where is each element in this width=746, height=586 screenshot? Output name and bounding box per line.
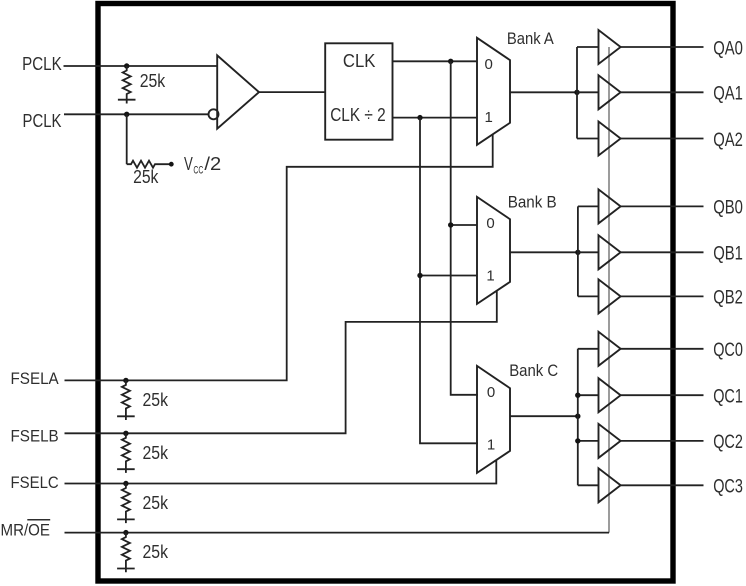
wire PCLK(inv) input <box>64 113 209 115</box>
wire FSELA net to Bank A mux select <box>65 134 493 380</box>
buffer QC1 <box>599 378 621 412</box>
wire PCLK input <box>64 65 218 67</box>
junction on PCLK(inv) wire <box>124 112 129 117</box>
svg-text:QB1: QB1 <box>713 244 743 265</box>
wire stub to QC1 buffer <box>578 394 599 396</box>
svg-text:QA1: QA1 <box>713 84 743 105</box>
svg-text:PCLK: PCLK <box>23 111 62 131</box>
wire QC1 output <box>621 394 704 396</box>
resistor R5 25k pulldown on FSELC <box>122 484 130 524</box>
junction CLK÷2 rail at Bank B <box>417 273 422 278</box>
junction FSELB at R4 <box>123 431 128 436</box>
svg-text:QA2: QA2 <box>713 130 743 151</box>
buffer QA2 <box>599 122 621 156</box>
svg-text:QC0: QC0 <box>713 340 743 361</box>
svg-text:1: 1 <box>485 109 493 126</box>
svg-text:25k: 25k <box>143 493 169 513</box>
wire stub to QC3 buffer <box>578 484 599 486</box>
buffer QB1 <box>599 235 621 269</box>
wire stub to QB0 buffer <box>578 205 599 207</box>
wire QB input rail <box>577 206 579 296</box>
svg-text:QC3: QC3 <box>713 477 743 498</box>
svg-text:0: 0 <box>485 56 493 73</box>
svg-text:Bank C: Bank C <box>509 361 558 380</box>
inversion bubble on U1 <box>209 109 219 119</box>
wire QC input rail <box>577 349 579 486</box>
svg-text:25k: 25k <box>140 71 166 91</box>
wire Bank C mux output <box>510 415 578 417</box>
junction Bank C output at QC rail <box>575 414 580 419</box>
buffer QC0 <box>599 332 621 366</box>
svg-text:QC2: QC2 <box>713 432 743 453</box>
resistor R4 25k pulldown on FSELB <box>122 433 130 473</box>
svg-text:CLK: CLK <box>343 51 376 71</box>
wire CLK net to Bank A mux input 0 <box>393 60 478 62</box>
wire from PCLK(inv) down to R2 <box>126 114 128 164</box>
wire stub to QC0 buffer <box>578 348 599 350</box>
svg-text:QC1: QC1 <box>713 387 743 408</box>
wire CLK÷2 rail stub to Bank B input 1 <box>420 275 477 277</box>
wire CLK÷2 net to Bank A mux input 1 <box>393 117 478 119</box>
wire CLK vertical rail to banks B and C <box>451 61 478 395</box>
junction QC rail at QC1 <box>575 393 580 398</box>
wire Bank B mux output <box>510 251 578 253</box>
wire QC3 output <box>621 484 704 486</box>
mux U3 Bank A <box>477 38 510 145</box>
ground bar of R6 <box>117 568 135 570</box>
op-amp U1 differential input buffer <box>217 55 259 128</box>
divider block U2 CLK / CLK÷2 <box>325 43 392 139</box>
svg-text:PCLK: PCLK <box>22 54 62 74</box>
svg-text:25k: 25k <box>143 542 169 562</box>
junction MR/OE at R6 <box>123 530 128 535</box>
buffer QB2 <box>599 279 621 313</box>
wire QA input rail <box>576 47 578 139</box>
wire stub to QA2 buffer <box>577 138 599 140</box>
junction CLK÷2 net <box>417 115 422 120</box>
svg-text:25k: 25k <box>133 167 159 187</box>
wire CLK rail stub to Bank B input 0 <box>451 224 477 226</box>
wire QC2 output <box>621 440 704 442</box>
border frame of device <box>98 4 673 582</box>
svg-text:Bank A: Bank A <box>507 29 554 48</box>
svg-text:V: V <box>184 154 193 174</box>
junction FSELC at R5 <box>123 481 128 486</box>
resistor R6 25k pulldown on MR/OE <box>122 533 130 573</box>
junction QC rail at QC2 <box>575 438 580 443</box>
junction FSELA at R3 <box>123 378 128 383</box>
node Vcc/2 terminal dot <box>169 162 174 167</box>
svg-text:CC: CC <box>193 165 203 177</box>
svg-text:QB0: QB0 <box>713 198 743 219</box>
svg-text:0: 0 <box>487 384 495 401</box>
junction CLK rail at Bank B <box>448 222 453 227</box>
wire FSELC net to Bank C mux select <box>65 460 497 484</box>
wire Bank A mux output <box>510 91 577 93</box>
ground bar of R5 <box>117 518 135 520</box>
resistor R2 25k horizontal to Vcc/2 <box>127 161 172 168</box>
svg-text:FSELA: FSELA <box>11 369 60 388</box>
ground bar of R3 <box>117 415 135 417</box>
wire MR/OE net to output enable rail <box>65 532 610 534</box>
wire QA2 output <box>621 138 704 140</box>
svg-text:QB2: QB2 <box>713 288 743 309</box>
wire QC0 output <box>621 348 704 350</box>
buffer QA1 <box>599 75 621 109</box>
svg-text:1: 1 <box>487 437 495 454</box>
ground bar of R1 <box>118 99 136 101</box>
junction Bank B output at QB rail <box>575 250 580 255</box>
wire stub to QA1 buffer <box>577 91 599 93</box>
buffer QC3 <box>599 468 621 502</box>
resistor R3 25k pulldown on FSELA <box>122 380 130 420</box>
buffer QB0 <box>599 189 621 223</box>
svg-text:MR/OE: MR/OE <box>1 521 51 540</box>
wire QA1 output <box>621 91 704 93</box>
wire QB0 output <box>621 205 704 207</box>
svg-text:0: 0 <box>486 215 494 232</box>
junction on PCLK wire <box>124 63 129 68</box>
wire FSELB net to Bank B mux select <box>65 291 497 434</box>
buffer QC2 <box>599 424 621 458</box>
junction CLK net <box>448 59 453 64</box>
wire QB1 output <box>621 251 704 253</box>
resistor R1 25k pulldown on PCLK <box>123 66 131 104</box>
overline over OE <box>27 519 50 521</box>
wire U1 output to CLK block <box>259 91 325 93</box>
svg-text:FSELC: FSELC <box>11 473 59 492</box>
buffer QA0 <box>599 30 621 64</box>
junction Bank A output at QA rail <box>574 90 579 95</box>
mux U5 Bank C <box>477 366 510 473</box>
wire stub to QA0 buffer <box>577 46 599 48</box>
wire stub to QB1 buffer <box>578 251 599 253</box>
svg-text:QA0: QA0 <box>713 38 743 59</box>
svg-text:FSELB: FSELB <box>11 427 59 446</box>
wire stub to QC2 buffer <box>578 440 599 442</box>
svg-text:CLK ÷ 2: CLK ÷ 2 <box>330 105 386 125</box>
wire QB2 output <box>621 295 704 297</box>
wire CLK÷2 vertical rail to banks B and C <box>420 118 478 444</box>
wire stub to QB2 buffer <box>578 295 599 297</box>
svg-text:25k: 25k <box>143 390 169 410</box>
mux U4 Bank B <box>477 197 510 304</box>
wire QA0 output <box>621 46 704 48</box>
svg-text:/2: /2 <box>204 154 221 174</box>
ground bar of R4 <box>117 468 135 470</box>
svg-text:25k: 25k <box>143 443 169 463</box>
svg-text:Bank B: Bank B <box>508 192 557 211</box>
wire OE enable rail vertical <box>608 47 610 533</box>
svg-text:1: 1 <box>486 268 494 285</box>
